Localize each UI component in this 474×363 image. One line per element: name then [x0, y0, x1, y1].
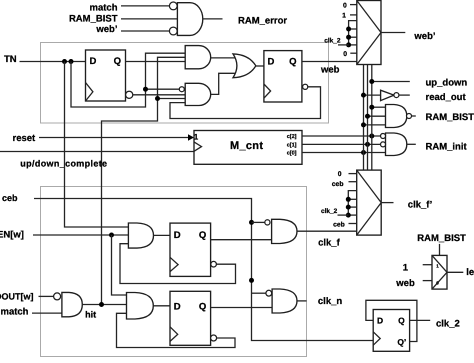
svg-text:clk_n: clk_n: [318, 296, 342, 307]
svg-text:Q: Q: [289, 57, 296, 68]
wire M3 output: [447, 271, 463, 273]
wire DFF2 Q' feedback loop to G2 input4: [170, 87, 321, 119]
svg-text:EN[w]: EN[w]: [0, 230, 24, 241]
wire read_out output: [399, 94, 410, 96]
wire hit output to gate G5: [82, 304, 126, 306]
flip-flop DFF2: [264, 51, 302, 102]
wire M2 select stub a: [348, 198, 356, 200]
wire clk_f output to mux M2: [297, 230, 357, 232]
wire M2 ceb stub: [349, 181, 357, 183]
svg-text:ceb: ceb: [333, 222, 345, 229]
svg-text:M_cnt: M_cnt: [230, 140, 263, 152]
wire TN tap to G2 bubble input: [146, 88, 180, 90]
bubble clk_n input1: [266, 290, 272, 296]
svg-text:RAM_BIST: RAM_BIST: [417, 233, 466, 244]
bubble U1 input1: [169, 2, 177, 10]
wire NAND input1: [372, 106, 386, 108]
gate clk_f NAND: [272, 219, 297, 243]
wire DFF5 Q' feedback to G5 input3: [117, 313, 236, 347]
node junction ceb tap clk_n: [249, 278, 254, 283]
node junction c1 bus: [365, 142, 370, 147]
svg-text:clk_2: clk_2: [321, 208, 338, 215]
wire G2 output to OR input2: [211, 73, 237, 94]
inverter read_out: [381, 90, 394, 100]
wire M1 input0 stub: [350, 4, 357, 6]
wire M1 select stub c: [349, 44, 357, 46]
svg-text:clk_f: clk_f: [318, 237, 340, 248]
wire ceb to clk gates and DFF3 clock: [34, 199, 373, 341]
wire M2 select stub c: [348, 214, 356, 216]
wire M1 select stub a: [349, 28, 357, 30]
wire clk_2 to M2 select: [338, 214, 349, 216]
node junction c2 bus: [369, 134, 374, 139]
bubble U1 input3: [169, 27, 177, 35]
gate G4 AND row1: [128, 223, 153, 248]
gate G2 AND 4-input with bubble: [185, 83, 210, 105]
svg-text:0: 0: [338, 171, 342, 178]
node junction select c: [346, 42, 351, 47]
wire hit tap to G2 input3: [158, 98, 186, 100]
arrowhead reset into M_cnt: [188, 134, 194, 141]
wire c[1] to RAM_init bubble2: [302, 143, 381, 145]
wire DOUT[w] to hit gate bubble: [39, 295, 54, 297]
wire RAM_BIST select into mux M3: [439, 244, 441, 256]
wire G1 output to OR: [211, 57, 237, 59]
wire reset to M_cnt: [39, 137, 188, 139]
flip-flop DFF3 outer feedback loop: [366, 300, 417, 341]
node junction select a: [346, 27, 351, 32]
svg-text:Q’: Q’: [397, 337, 406, 347]
bubble RAM_init input1: [381, 134, 386, 139]
multiplexer M3 small: [432, 255, 447, 289]
svg-text:read_out: read_out: [426, 92, 467, 103]
gate G1 AND 3-input: [185, 46, 210, 69]
flip-flop DFF3: [373, 310, 409, 352]
wire match to hit gate: [32, 312, 62, 314]
wire M2 select stub b: [348, 206, 356, 208]
multiplexer M1: [357, 1, 381, 65]
node junction M2 sel a: [346, 197, 351, 202]
svg-text:up_down: up_down: [426, 77, 468, 88]
wire G4 output to DFF4: [153, 234, 170, 236]
node junction EN[w]: [109, 233, 114, 238]
wire DFF1 Q to gate G1: [126, 61, 186, 63]
bubble clk_f input1: [265, 220, 270, 225]
svg-text:0: 0: [343, 51, 347, 58]
wire NAND input3: [364, 124, 386, 126]
bubble DFF5 Q': [211, 335, 217, 341]
svg-text:Q: Q: [199, 302, 206, 313]
svg-text:TN: TN: [4, 54, 17, 65]
node junction hit tap: [155, 96, 160, 101]
wire bus c2 vertical: [371, 65, 373, 171]
wire up_down: [372, 81, 410, 83]
wire M1 input1 stub: [350, 14, 357, 16]
node junction c0 bus: [361, 150, 366, 155]
wire bus c0 vertical: [363, 65, 365, 171]
svg-text:clk_2: clk_2: [324, 38, 341, 45]
svg-text:1: 1: [342, 13, 346, 20]
node junction M2 sel c: [346, 213, 351, 218]
svg-text:c[2]: c[2]: [287, 134, 297, 140]
wire TN to DFF1: [20, 61, 86, 63]
node junction TN tap: [143, 87, 148, 92]
node junction TN-B: [69, 59, 74, 64]
svg-text:RAM_error: RAM_error: [238, 15, 287, 26]
wire hit riser to G1 input2 and down to lower section: [102, 57, 186, 304]
gate G3 OR 2-input: [233, 54, 256, 78]
node junction M2 sel b: [346, 205, 351, 210]
node junction up_down: [369, 79, 374, 84]
wire clk_2 to select c: [338, 44, 349, 46]
wire M3 input1 stub: [423, 264, 432, 266]
wire EN[w] to gate G4: [33, 234, 128, 236]
svg-text:clk_2: clk_2: [436, 318, 460, 329]
svg-text:D: D: [90, 56, 97, 67]
wire clk_n output: [297, 300, 307, 302]
svg-text:D: D: [174, 302, 181, 313]
svg-text:web’: web’: [95, 24, 117, 35]
wire RAM_BIST output: [411, 115, 415, 117]
gate RAM_init AND: [386, 133, 407, 156]
svg-text:ceb: ceb: [332, 181, 344, 188]
svg-text:le: le: [466, 267, 474, 278]
wire DFF4 Q to clk_f gate: [211, 239, 272, 241]
wire M1 select bracket: [349, 21, 357, 45]
wire ceb tap to clk_n bubble: [252, 292, 267, 294]
wire match to gate: [121, 5, 169, 7]
wire TN-B feedback path to G1 input1: [71, 53, 185, 107]
node junction TN-A: [62, 59, 67, 64]
enclosing box upper subcircuit: [41, 43, 329, 124]
svg-text:c[0]: c[0]: [287, 150, 297, 156]
wire DFF1 Q' to gate G2: [133, 94, 185, 96]
wire EN[w] riser to gate G5: [112, 235, 127, 295]
wire RAM_error output: [203, 18, 223, 20]
node junction NAND in3: [361, 122, 366, 127]
wire M2 select bracket: [348, 191, 356, 216]
svg-text:ceb: ceb: [2, 193, 18, 203]
svg-text:RAM_BIST: RAM_BIST: [69, 13, 118, 24]
wire c[0] to RAM_init input3: [302, 152, 386, 154]
wire M3 web stub: [423, 280, 432, 282]
svg-text:D: D: [268, 57, 275, 68]
wire DFF3 Q output clk_2: [410, 319, 431, 321]
svg-text:1: 1: [403, 263, 409, 274]
wire G5 output to DFF5: [153, 305, 170, 307]
bubble read_out: [394, 93, 399, 98]
wire M1 output web': [381, 32, 405, 34]
wire M2 input0 stub: [349, 173, 357, 175]
svg-text:web: web: [395, 278, 415, 289]
wire DFF4 Q' feedback to G4 input3: [120, 244, 236, 284]
svg-text:match: match: [90, 2, 118, 13]
svg-text:RAM_BIST: RAM_BIST: [426, 112, 474, 123]
bubble G2 input1: [179, 87, 184, 92]
svg-text:Q: Q: [114, 56, 121, 67]
flip-flop DFF1: [86, 50, 126, 101]
bubble NAND output: [407, 114, 412, 119]
bubble DFF4 Q': [211, 261, 217, 267]
wire DFF5 Q to clk_n gate: [211, 307, 273, 309]
gate clk_n NAND: [272, 289, 297, 313]
svg-text:DOUT[w]: DOUT[w]: [0, 291, 34, 301]
wire TN-A to gate G4 input1: [65, 62, 129, 228]
bubble DFF2 Q': [303, 84, 308, 89]
wire read_out input: [364, 94, 381, 96]
svg-text:c[1]: c[1]: [287, 142, 297, 148]
multiplexer M2: [357, 170, 382, 235]
counter M_cnt: [194, 131, 302, 165]
svg-text:D: D: [174, 230, 181, 241]
node junction ceb tap clk_f: [249, 220, 254, 225]
gate hit AND: [62, 292, 82, 316]
gate U1 AND for RAM_error: [177, 3, 202, 36]
enclosing box lower subcircuit: [41, 187, 307, 357]
flip-flop DFF4: [170, 223, 211, 276]
svg-text:RAM_init: RAM_init: [426, 141, 468, 152]
svg-text:Q: Q: [199, 230, 206, 241]
svg-text:D: D: [377, 316, 383, 326]
wire RAM_BIST to gate: [121, 18, 177, 20]
svg-text:Q: Q: [398, 316, 405, 326]
wire bus c1 vertical: [367, 65, 369, 171]
node junction select b: [346, 35, 351, 40]
node junction read_out: [361, 93, 366, 98]
wire M2 output clk_f': [381, 202, 393, 204]
wire NAND input2: [368, 115, 386, 117]
bubble hit input1: [54, 293, 61, 300]
node junction NAND in2: [365, 114, 370, 119]
wire M1 input 0b stub: [350, 52, 357, 54]
wire M1 select stub b: [349, 36, 357, 38]
bubble RAM_init input2: [381, 142, 386, 147]
gate G5 AND row2: [127, 293, 154, 320]
wire M2 ceb bottom stub: [349, 223, 357, 225]
svg-text:match: match: [1, 306, 29, 317]
wire DFF2 Q web to mux M1: [302, 61, 357, 63]
flip-flop DFF5: [170, 291, 211, 345]
bubble DFF1 Q': [126, 91, 133, 98]
wire ceb tap to clk_f bubble: [252, 221, 265, 223]
svg-text:web’: web’: [413, 31, 435, 42]
wire up/down_complete to M_cnt clock: [0, 151, 194, 153]
wire web' to gate: [121, 30, 169, 32]
node junction hit: [99, 302, 104, 307]
gate NAND RAM_BIST: [386, 105, 407, 128]
svg-text:0: 0: [343, 3, 347, 10]
svg-text:reset: reset: [13, 133, 37, 144]
wire c[2] to RAM_init bubble1: [302, 135, 381, 137]
svg-text:clk_f’: clk_f’: [408, 200, 432, 211]
svg-text:web: web: [320, 65, 340, 76]
node junction NAND in1: [369, 105, 374, 110]
svg-text:1: 1: [194, 133, 199, 142]
wire RAM_init output: [407, 143, 416, 145]
svg-text:hit: hit: [85, 309, 96, 319]
wire OR output to DFF2 D: [256, 65, 264, 67]
